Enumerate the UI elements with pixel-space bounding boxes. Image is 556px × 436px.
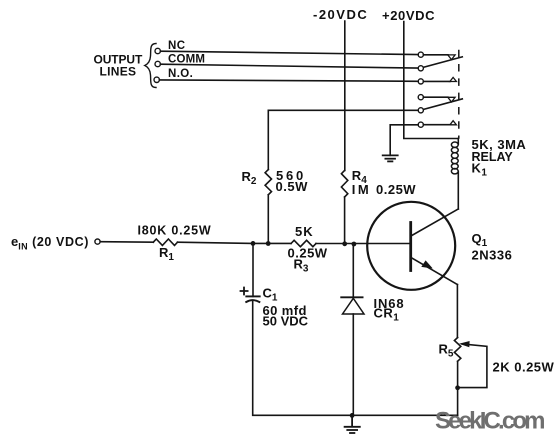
wire emitter down to R5 [456,285,458,338]
resistor R4 [341,170,347,197]
terminal NC (open circle) [155,48,160,53]
brace for output lines [145,44,156,88]
wire R5 bottom to rail [457,361,459,415]
relay mechanical linkage dashed line [458,51,460,139]
wire C1 bottom to ground rail [253,302,352,416]
node junction dot R4 branch [342,241,347,246]
label CR1 [374,296,405,324]
relay contact circle 2 (COMM pole 1) [418,66,423,71]
capacitor C1 top plate [246,295,259,297]
wire ground rail to R5 branch [352,414,458,416]
label R2 [242,168,309,194]
svg-text:R1: R1 [159,245,174,263]
svg-text:IM: IM [352,182,371,197]
svg-text:0.25W: 0.25W [376,182,416,197]
relay armature arm pole 1 [424,57,463,68]
wire N.O. line [159,80,418,81]
terminal N.O. (open circle) [154,77,159,82]
svg-text:R2: R2 [242,169,257,187]
NO fixed contact triangle pole 1 [450,77,457,81]
svg-text:I80K 0.25W: I80K 0.25W [138,224,212,238]
input terminal circle [95,239,100,244]
svg-text:50 VDC: 50 VDC [263,314,309,329]
wire NC pole1 to fixed contact [423,54,448,56]
NC fixed contact triangle pole 1 [448,55,455,60]
diode CR1 triangle [343,298,365,314]
label C1 [263,286,309,329]
relay contact circle 4 (NC pole 2) [418,95,423,100]
transistor Q1 circle [367,202,455,290]
wire COMM pole2 down to R2 [268,110,418,169]
transistor Q1 emitter lead [411,258,458,285]
svg-text:N.O.: N.O. [168,68,193,80]
svg-text:0.5W: 0.5W [276,179,309,194]
label R3 [288,224,328,275]
svg-text:C1: C1 [263,286,278,304]
wire NO pole1 to fixed contact [423,80,450,82]
resistor R3 [291,240,316,246]
svg-text:2K 0.25W: 2K 0.25W [493,360,555,375]
relay contact circle 1 (NC pole 1) [418,52,423,57]
wire -20VDC vertical to R4 top [344,21,346,170]
wire NO pole2 to fixed contact [423,124,450,126]
NC fixed contact triangle pole 2 [448,97,455,102]
wire R3 to transistor base [316,243,411,245]
wire input to R1 [100,241,153,244]
svg-text:SeekIC.com: SeekIC.com [435,408,545,435]
resistor R1 [153,239,177,245]
label relay K1 [472,137,527,179]
wire R4 bottom to rail [344,197,346,244]
NO fixed contact triangle pole 2 [450,121,457,125]
svg-text:NC: NC [168,40,185,52]
svg-text:-20VDC: -20VDC [313,7,368,22]
transistor Q1 collector lead [411,209,458,236]
node junction dot R5 bottom [455,385,460,390]
relay contact circle 6 (NO pole 2) [418,122,423,127]
wire +20VDC vertical and over to relay coil [404,22,458,139]
svg-text:5K: 5K [295,224,314,239]
R5 wiper arm wire [460,344,487,388]
relay coil K1 [451,139,458,210]
svg-text:+20VDC: +20VDC [382,8,435,23]
capacitor C1 plus sign [241,288,248,295]
label Q1 [472,231,513,263]
relay armature arm pole 2 [424,99,463,110]
wire NC line [160,51,418,54]
ground (bottom rail) [345,415,360,433]
node junction dot ground [350,413,355,418]
node junction dot C1 branch [251,241,256,246]
wire NC pole2 to fixed contact [423,96,448,98]
node junction dot R2 branch [266,241,271,246]
wire CR1 to ground rail [352,314,354,415]
svg-text:eIN (20 VDC): eIN (20 VDC) [11,234,89,252]
terminal COMM (open circle) [155,61,160,66]
wire NO pole2 to ground [390,125,418,156]
relay contact circle 3 (NO pole 1) [418,79,423,84]
transistor Q1 base bar [409,223,412,271]
diode CR1 cathode bar [341,296,362,298]
relay contact circle 5 (COMM pole 2) [418,108,423,113]
node junction dot CR1 branch [352,242,357,247]
wire R1 to rail junctions [178,242,292,243]
label R4 [352,168,417,197]
transistor Q1 emitter arrow [421,260,433,268]
ground (relay contact) [383,155,398,161]
capacitor C1 curved bottom plate [246,300,259,302]
svg-text:2N336: 2N336 [472,248,513,263]
wire COMM line [160,64,418,68]
potentiometer R5 [454,338,460,362]
R5 wiper arrow head [459,341,470,347]
svg-text:LINES: LINES [100,65,137,79]
wire R2 bottom to rail [267,195,269,244]
wire rail down to CR1 [352,244,354,297]
wire rail down to C1 [252,243,254,296]
svg-text:R5: R5 [439,342,454,360]
resistor R2 [265,170,271,195]
svg-text:Q1: Q1 [472,231,488,249]
